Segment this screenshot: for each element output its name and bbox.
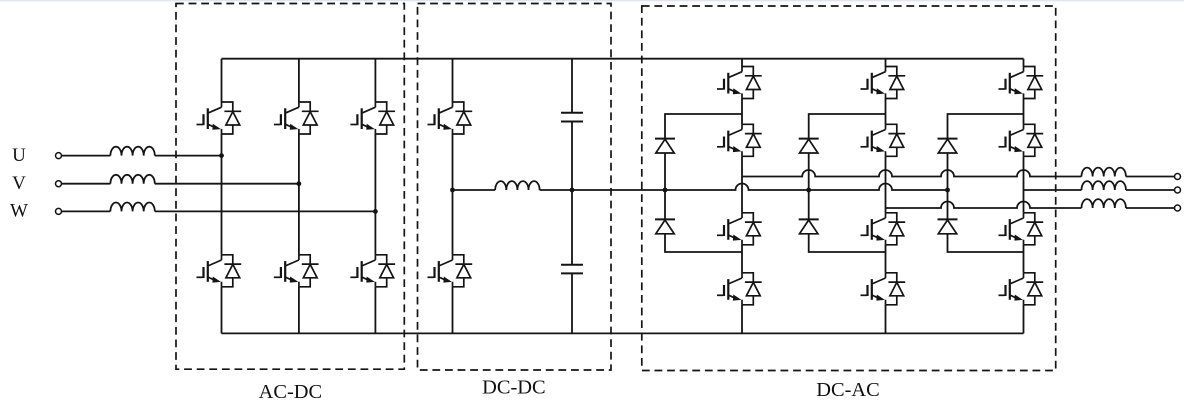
IGBT T12 (inverter leg 1 Q4) <box>717 273 762 305</box>
IGBT T5 (AC-DC leg 2 lower) <box>274 255 319 287</box>
wire DC-AC leg 3 vertical <box>1023 59 1025 334</box>
node neutral at clamp line 2 <box>806 188 811 193</box>
diode D6 (clamp lower leg 3) <box>938 219 958 233</box>
wire AC-DC leg 2 vertical <box>298 59 300 334</box>
diode D1 (clamp upper leg 1) <box>655 139 675 153</box>
svg-text:V: V <box>12 173 26 194</box>
terminal output phase 3 <box>1175 187 1181 193</box>
wire neutral rail from capacitor midpoint through clamp lines <box>572 184 948 191</box>
IGBT T13 (inverter leg 2 Q1) <box>861 67 906 99</box>
IGBT T1 (AC-DC leg 1 upper) <box>197 102 242 134</box>
terminal U <box>56 153 62 159</box>
IGBT T16 (inverter leg 2 Q4) <box>861 273 906 305</box>
decorative top strip <box>0 0 1184 1</box>
node U on leg 1 <box>219 153 224 158</box>
IGBT T18 (inverter leg 3 Q2) <box>999 124 1044 156</box>
svg-text:U: U <box>12 145 26 166</box>
inductor W input filter <box>110 203 154 212</box>
terminal V <box>56 181 62 187</box>
IGBT T15 (inverter leg 2 Q3) <box>861 213 906 245</box>
inductor output phase 1 <box>1082 168 1126 177</box>
wire clamp branch leg 2 <box>809 114 886 252</box>
IGBT T17 (inverter leg 3 Q1) <box>999 67 1044 99</box>
wire phase 1 inductor to terminal <box>1126 176 1175 178</box>
wire phase output leg 1 with crossover hops <box>742 170 1082 177</box>
wire phase 3 inductor to terminal <box>1126 189 1175 191</box>
IGBT T11 (inverter leg 1 Q3) <box>717 213 762 245</box>
wire U inductor to rectifier leg 1 <box>155 155 222 157</box>
inductor U input filter <box>110 147 154 156</box>
IGBT T9 (inverter leg 1 Q1) <box>717 67 762 99</box>
wire AC-DC leg 3 vertical <box>374 59 376 334</box>
wire W terminal to inductor <box>62 210 111 212</box>
node neutral at clamp line 3 <box>945 188 950 193</box>
wire AC-DC leg 1 vertical <box>221 59 223 334</box>
wire DC-DC leg vertical <box>452 59 454 334</box>
IGBT T19 (inverter leg 3 Q3) <box>999 213 1044 245</box>
node DC-DC leg midpoint <box>450 188 455 193</box>
diode D5 (clamp upper leg 3) <box>938 139 958 153</box>
wire U terminal to inductor <box>62 155 111 157</box>
terminal W <box>56 208 62 214</box>
wire DC-AC leg 1 vertical <box>741 59 743 334</box>
inductor V input filter <box>110 175 154 184</box>
inductor DC-DC filter <box>495 181 539 190</box>
wire phase output leg 2 with crossover hops <box>886 202 1082 209</box>
svg-text:W: W <box>10 201 28 222</box>
node V on leg 2 <box>297 181 302 186</box>
wire phase output leg 3 <box>1024 189 1082 191</box>
wire DC-DC midpoint to inductor <box>453 189 496 191</box>
inductor output phase 2 <box>1082 199 1126 208</box>
IGBT T2 (AC-DC leg 2 upper) <box>274 102 319 134</box>
inductor output phase 3 <box>1082 181 1126 190</box>
wire W inductor to rectifier leg 3 <box>155 210 376 212</box>
terminal output phase 1 <box>1175 174 1181 180</box>
wire V terminal to inductor <box>62 183 111 185</box>
wire DC-AC leg 2 vertical <box>885 59 887 334</box>
IGBT T7 (DC-DC upper) <box>428 102 473 134</box>
node capacitor midpoint <box>570 188 575 193</box>
IGBT T4 (AC-DC leg 1 lower) <box>197 255 242 287</box>
wire clamp branch leg 3 <box>948 114 1024 252</box>
IGBT T14 (inverter leg 2 Q2) <box>861 124 906 156</box>
wire DC-DC inductor to capacitor midpoint <box>540 189 572 191</box>
svg-text:DC-AC: DC-AC <box>816 379 879 401</box>
DC-DC stage dashed box <box>418 4 612 371</box>
wire clamp branch leg 1 <box>665 114 742 252</box>
terminal output phase 2 <box>1175 205 1181 211</box>
wire negative DC bus (bottom rail) <box>222 332 1024 334</box>
IGBT T6 (AC-DC leg 3 lower) <box>350 255 395 287</box>
DC-AC stage dashed box <box>642 6 1056 371</box>
wire DC-link capacitor branch vertical <box>571 59 573 334</box>
IGBT T10 (inverter leg 1 Q2) <box>717 124 762 156</box>
node neutral at clamp line 1 <box>663 188 668 193</box>
svg-text:AC-DC: AC-DC <box>259 381 322 403</box>
capacitor C2 (lower DC-link) <box>561 265 583 274</box>
diode D4 (clamp lower leg 2) <box>799 219 819 233</box>
svg-text:DC-DC: DC-DC <box>482 377 545 399</box>
wire phase 2 inductor to terminal <box>1126 207 1175 209</box>
wire V inductor to rectifier leg 2 <box>155 183 299 185</box>
IGBT T8 (DC-DC lower) <box>428 255 473 287</box>
IGBT T20 (inverter leg 3 Q4) <box>999 273 1044 305</box>
diode D3 (clamp upper leg 2) <box>799 139 819 153</box>
diode D2 (clamp lower leg 1) <box>655 219 675 233</box>
IGBT T3 (AC-DC leg 3 upper) <box>350 102 395 134</box>
node W on leg 3 <box>373 209 378 214</box>
capacitor C1 (upper DC-link) <box>561 113 583 122</box>
AC-DC stage dashed box <box>176 4 404 370</box>
wire positive DC bus (top rail) <box>222 58 1024 60</box>
